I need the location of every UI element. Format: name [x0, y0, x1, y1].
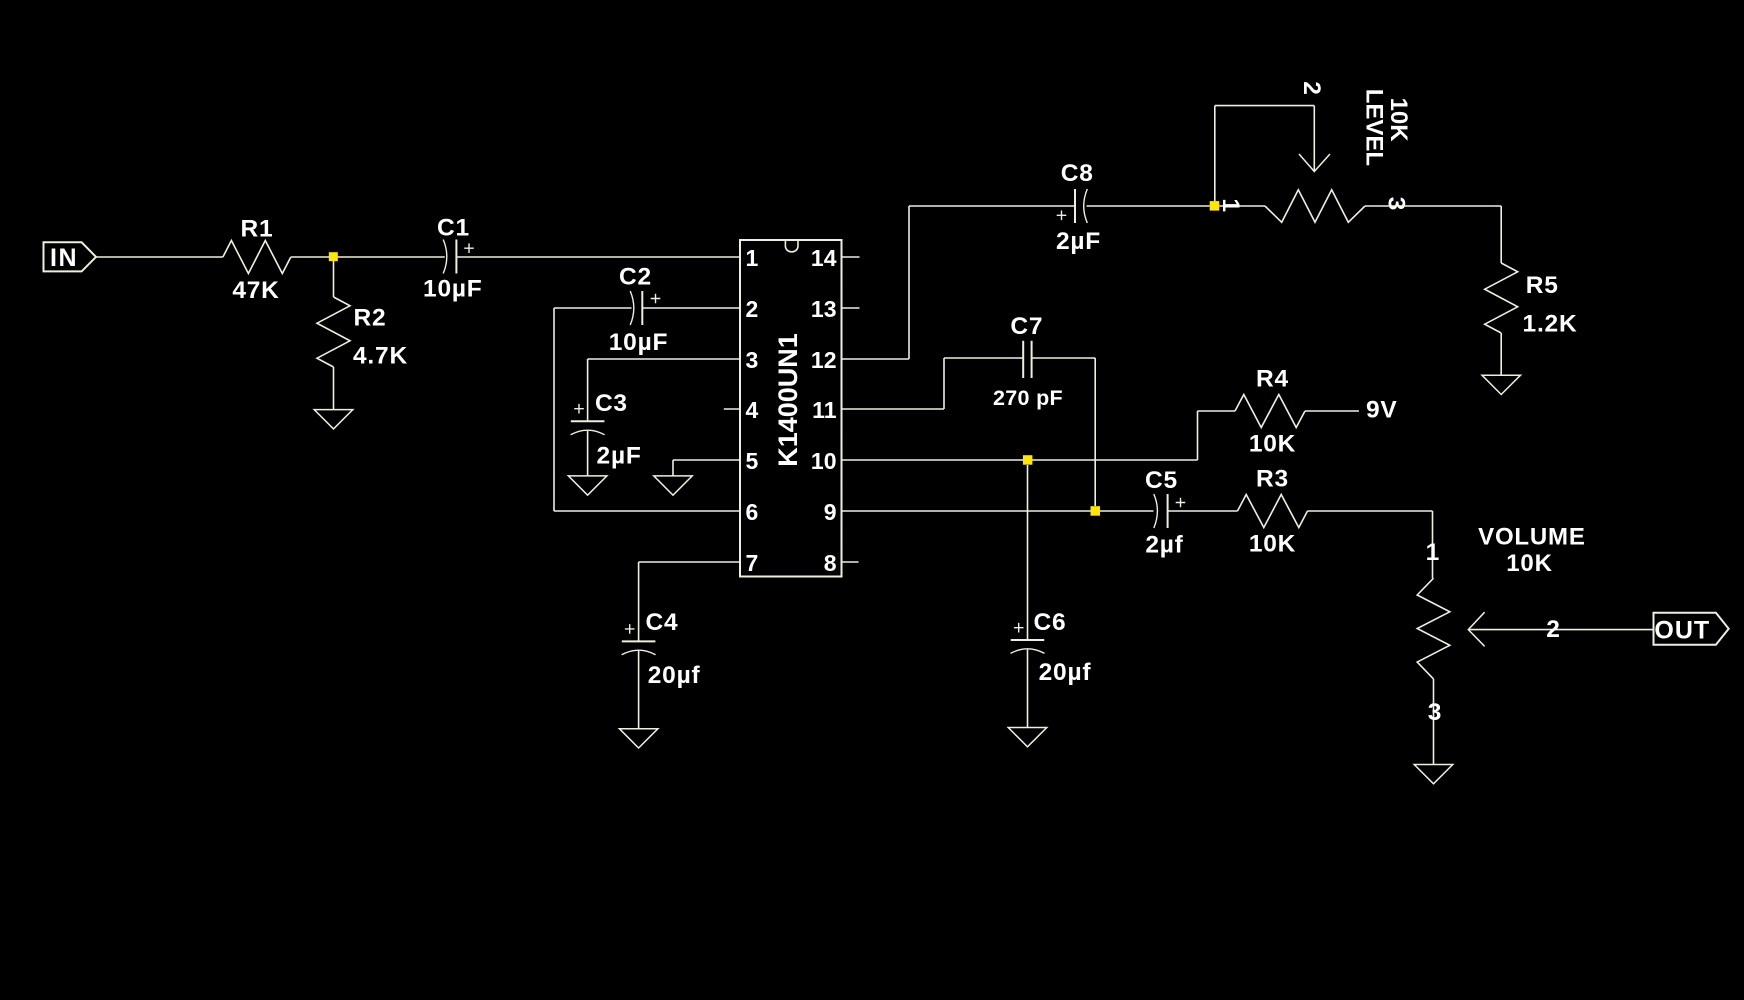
- capacitor C7: [1022, 341, 1024, 378]
- wire R5 to ground: [1500, 333, 1502, 375]
- pot LEVEL wiper wire: [1214, 106, 1216, 201]
- svg-text:1.2K: 1.2K: [1523, 310, 1578, 337]
- svg-text:C3: C3: [595, 390, 628, 417]
- wire pin5 down: [672, 460, 674, 476]
- ground below C3: [568, 476, 607, 495]
- connector IN: [44, 242, 97, 271]
- svg-text:3: 3: [746, 347, 759, 373]
- wire pot3 to R5: [1365, 205, 1501, 207]
- svg-text:R4: R4: [1256, 365, 1289, 392]
- pin 4 stub: [724, 408, 740, 410]
- svg-text:11: 11: [812, 397, 837, 423]
- svg-text:1: 1: [746, 245, 759, 271]
- svg-text:2: 2: [1546, 616, 1560, 643]
- pin 13 stub: [842, 307, 860, 309]
- potentiometer LEVEL body: [1265, 190, 1365, 223]
- node D junction: [1091, 506, 1101, 516]
- wire C1 to pin 1: [456, 256, 740, 258]
- ground below C4: [619, 729, 658, 748]
- pin 14 stub: [842, 256, 860, 258]
- capacitor C3: [571, 420, 605, 422]
- svg-text:9V: 9V: [1366, 397, 1398, 424]
- wire IN to R1: [96, 256, 223, 258]
- svg-text:4.7K: 4.7K: [353, 343, 408, 370]
- svg-text:10µF: 10µF: [609, 329, 669, 356]
- ground below C6: [1008, 728, 1047, 747]
- wire pin 12: [842, 358, 910, 360]
- svg-text:2µF: 2µF: [597, 443, 642, 470]
- wire pin 5: [673, 459, 740, 461]
- pin 8 stub: [842, 561, 859, 563]
- wire pin12 riser: [908, 206, 910, 359]
- wire pin 6: [554, 510, 740, 512]
- svg-text:C8: C8: [1061, 160, 1094, 187]
- svg-text:10µF: 10µF: [423, 275, 483, 302]
- capacitor C4: [622, 640, 656, 642]
- capacitor C1: [443, 240, 447, 274]
- wire C2 to left riser: [554, 307, 632, 309]
- wire R4 to 9V: [1305, 410, 1359, 412]
- svg-text:2: 2: [746, 296, 759, 322]
- svg-text:2µf: 2µf: [1145, 531, 1183, 558]
- wire pin11 riser: [943, 358, 945, 409]
- potentiometer VOLUME body: [1417, 578, 1450, 679]
- resistor R3: [1238, 495, 1308, 528]
- svg-text:10K: 10K: [1385, 98, 1412, 143]
- wire pin 3: [588, 358, 740, 360]
- ground at pin 5: [654, 476, 692, 495]
- svg-text:47K: 47K: [232, 277, 279, 304]
- wire riser to node D: [1094, 358, 1096, 506]
- svg-text:10K: 10K: [1506, 550, 1552, 577]
- svg-text:C7: C7: [1010, 313, 1043, 340]
- capacitor C5: [1154, 494, 1158, 528]
- ground below VOLUME: [1414, 765, 1453, 784]
- svg-text:R3: R3: [1256, 465, 1289, 492]
- wire R2 to ground: [333, 367, 335, 410]
- svg-text:2µF: 2µF: [1056, 228, 1101, 255]
- wire pin 11: [842, 408, 945, 410]
- wire node C to C6: [1027, 465, 1029, 640]
- svg-text:C4: C4: [646, 609, 679, 636]
- svg-text:2: 2: [1298, 81, 1325, 95]
- svg-text:VOLUME: VOLUME: [1478, 524, 1585, 551]
- wire C3 to ground: [587, 431, 589, 476]
- svg-text:3: 3: [1428, 699, 1442, 726]
- svg-text:7: 7: [746, 550, 759, 576]
- wire pot to ground: [1433, 679, 1435, 765]
- wire wiper to OUT: [1468, 629, 1653, 631]
- svg-text:5: 5: [746, 448, 759, 474]
- svg-text:IN: IN: [50, 244, 78, 272]
- svg-text:R2: R2: [354, 304, 387, 331]
- node C junction: [1023, 455, 1033, 465]
- wire C7 to down-riser: [1032, 357, 1096, 359]
- wire pin 10: [842, 459, 1198, 461]
- wire C8 to node B: [1087, 205, 1210, 207]
- svg-text:14: 14: [811, 245, 837, 271]
- wire R1 to C1: [291, 256, 445, 258]
- IC U1 K1400UN1 body: [740, 240, 842, 577]
- svg-text:12: 12: [811, 347, 837, 373]
- wire node B to pot 1: [1219, 205, 1265, 207]
- wire R4 riser: [1197, 411, 1199, 460]
- resistor R1: [223, 241, 291, 274]
- svg-text:6: 6: [746, 499, 759, 525]
- svg-text:9: 9: [824, 499, 837, 525]
- svg-text:270 pF: 270 pF: [993, 386, 1063, 410]
- svg-text:4: 4: [746, 397, 759, 423]
- resistor R2: [317, 297, 350, 367]
- svg-text:R1: R1: [241, 215, 274, 242]
- svg-text:20µf: 20µf: [648, 662, 701, 689]
- node B junction: [1210, 201, 1220, 211]
- wire pin 9: [842, 510, 1154, 512]
- svg-text:10: 10: [811, 448, 837, 474]
- connector OUT: [1654, 613, 1729, 645]
- wire C6 to ground: [1027, 650, 1029, 728]
- wire pin3 down to C3: [587, 359, 589, 421]
- pot LEVEL wiper arrowhead: [1299, 154, 1330, 172]
- wire C5 to R3: [1168, 510, 1238, 512]
- svg-text:C2: C2: [619, 264, 652, 291]
- svg-text:C5: C5: [1145, 467, 1178, 494]
- svg-text:OUT: OUT: [1654, 617, 1710, 645]
- capacitor C8: [1074, 189, 1076, 223]
- svg-text:K1400UN1: K1400UN1: [773, 333, 803, 467]
- wire node A down: [333, 261, 335, 297]
- svg-text:C6: C6: [1034, 609, 1067, 636]
- svg-text:1: 1: [1217, 198, 1244, 212]
- svg-text:1: 1: [1426, 539, 1440, 566]
- wire pin 7: [639, 561, 740, 563]
- node A junction: [329, 252, 338, 261]
- svg-text:10K: 10K: [1249, 430, 1296, 457]
- resistor R5: [1485, 263, 1518, 333]
- svg-text:10K: 10K: [1249, 530, 1296, 557]
- wire R3 to VOLUME: [1308, 510, 1433, 512]
- svg-text:C1: C1: [437, 214, 470, 241]
- svg-text:3: 3: [1382, 197, 1409, 211]
- ground below R5: [1482, 375, 1521, 394]
- wire to C7: [944, 357, 1023, 359]
- svg-text:R5: R5: [1526, 272, 1559, 299]
- wire pin7 down to C4: [638, 562, 640, 641]
- capacitor C6: [1011, 639, 1045, 641]
- svg-text:13: 13: [811, 296, 837, 322]
- wire pin 2 to C2: [642, 307, 740, 309]
- ground below R2: [314, 410, 353, 429]
- wire riser pin6: [553, 308, 555, 511]
- svg-text:LEVEL: LEVEL: [1360, 89, 1387, 166]
- wire to C8: [909, 205, 1075, 207]
- pot VOLUME wiper arrowhead: [1468, 612, 1484, 646]
- svg-text:8: 8: [824, 550, 837, 576]
- wire C4 to ground: [638, 651, 640, 729]
- svg-text:20µf: 20µf: [1039, 659, 1092, 686]
- capacitor C2: [630, 291, 634, 325]
- resistor R4: [1198, 410, 1236, 412]
